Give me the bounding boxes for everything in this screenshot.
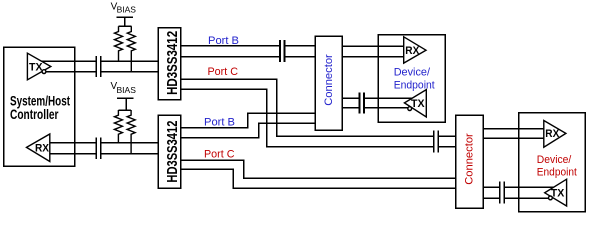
wire U1 Port C+ to cap [181,79,434,136]
wire Port C- cap to connector J2 [438,146,456,148]
wire RX- host to cap [50,153,97,155]
wire TX- host to cap [43,71,96,73]
wire Port B- cap to connector J1 [285,56,316,58]
svg-text:Connector: Connector [463,133,475,185]
svg-text:Endpoint: Endpoint [537,167,577,179]
wire TX- cap to U1 [101,71,158,73]
wire U2 Port C- to connector J2 [181,169,456,188]
svg-text:TX: TX [29,61,43,73]
wire U1 Port B+ to cap [181,45,281,47]
wire device2 TX+ cap to J2 [483,186,500,188]
wire device1 TX+ to cap [364,97,414,99]
host TX buffer [27,53,50,80]
wire RX+ host to cap [50,142,97,144]
capacitor C5 [280,40,285,51]
wire U1 Port B- to cap [181,56,281,58]
wire Port C+ cap to connector J2 [438,135,456,137]
wire connector J1 to chip U2 Port B+ [181,113,316,128]
Device/Endpoint 1 box [378,35,445,123]
capacitor C12 [500,193,505,204]
System/Host Controller box [4,47,75,166]
capacitor C4 [96,148,101,159]
capacitor C1 [96,56,101,67]
resistor R3 [114,110,122,143]
svg-text:BIAS: BIAS [117,4,137,14]
capacitor C3 [96,137,101,148]
svg-text:TX: TX [411,98,425,110]
device2 RX buffer [544,121,566,148]
wire device1 TX- to cap [364,107,408,109]
svg-text:Port C: Port C [208,66,239,78]
capacitor C2 [96,66,101,77]
capacitor C10 [360,102,365,113]
svg-text:Port B: Port B [208,35,239,47]
device1 RX buffer [404,37,426,63]
wire TX+ cap to U1 [101,60,158,62]
wire U2 Port C+ to connector J2 [181,160,456,178]
svg-text:HD3SS3412: HD3SS3412 [164,31,181,95]
resistor R4 [127,110,135,154]
capacitor C6 [280,51,285,62]
mux U2 HD3SS3412 [158,115,181,188]
connector J2 [456,115,483,208]
connector J1 [315,36,342,130]
svg-text:RX: RX [405,45,420,57]
wire Port B+ cap to connector J1 [285,45,316,47]
wire J2 to device2 RX+ [483,128,544,130]
svg-text:BIAS: BIAS [117,85,137,95]
host RX buffer [27,134,50,162]
Device/Endpoint 2 box [519,113,586,212]
capacitor C11 [500,182,505,193]
wire device1 TX- cap to J1 [342,107,360,109]
svg-text:RX: RX [545,128,560,140]
svg-text:RX: RX [35,142,50,154]
wire U1 Port C- to cap [181,89,434,146]
svg-text:Port C: Port C [204,148,235,160]
wire RX- cap to U2 [101,153,158,155]
device2 TX buffer [545,179,567,206]
svg-text:Endpoint: Endpoint [394,79,435,91]
wire device1 TX+ cap to J1 [342,97,360,99]
mux U1 HD3SS3412 [158,28,181,100]
wire RX+ cap to U2 [101,142,158,144]
svg-text:HD3SS3412: HD3SS3412 [164,121,181,183]
wire connector J1 to chip U2 Port B- [181,123,316,137]
svg-text:Controller: Controller [10,106,59,122]
svg-text:Device/: Device/ [537,154,572,166]
wire J1 to device1 RX- [342,56,404,58]
wire J2 to device2 RX- [483,137,544,139]
capacitor C8 [434,141,439,152]
resistor R2 [127,26,135,71]
svg-text:Port B: Port B [204,116,235,128]
capacitor C9 [360,93,365,104]
wire device2 TX- to cap [504,197,548,199]
svg-text:Device/: Device/ [394,66,431,78]
VBIAS supply bottom [111,81,137,110]
svg-text:Connector: Connector [323,54,335,106]
VBIAS supply top [111,1,137,26]
device1 TX buffer [404,90,426,117]
capacitor C7 [434,131,439,142]
wire device2 TX+ to cap [504,186,555,188]
wire J1 to device1 RX+ [342,45,404,47]
resistor R1 [115,26,123,61]
wire device2 TX- cap to J2 [483,197,500,199]
wire TX+ host to cap [40,60,96,62]
